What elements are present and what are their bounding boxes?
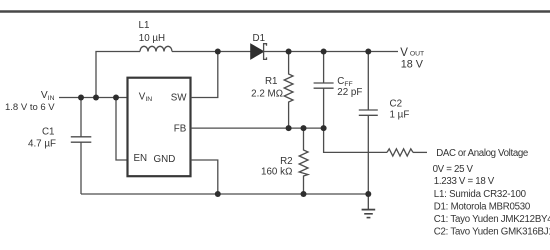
resistor R2 bbox=[299, 128, 308, 194]
wire SW to rail bbox=[191, 52, 218, 98]
svg-text:C1: C1 bbox=[42, 127, 55, 138]
svg-text:L1: Sumida CR32-100: L1: Sumida CR32-100 bbox=[434, 189, 527, 200]
wire bottom rail bbox=[81, 193, 368, 195]
capacitor CFF bbox=[314, 52, 334, 129]
svg-text:FB: FB bbox=[174, 124, 187, 135]
svg-text:10 µH: 10 µH bbox=[139, 33, 165, 44]
diode D1 bbox=[251, 44, 267, 60]
svg-text:DAC or Analog Voltage: DAC or Analog Voltage bbox=[436, 148, 528, 159]
wire top rail right bbox=[264, 51, 398, 53]
svg-text:R1: R1 bbox=[265, 76, 278, 87]
svg-text:D1: D1 bbox=[253, 33, 266, 44]
node rail riser bbox=[93, 95, 99, 101]
svg-text:4.7 µF: 4.7 µF bbox=[28, 139, 56, 150]
ground bbox=[362, 194, 376, 218]
capacitor C1 bbox=[71, 98, 92, 195]
node R1/FB bbox=[286, 125, 292, 131]
svg-text:1.233 V = 18 V: 1.233 V = 18 V bbox=[434, 176, 495, 187]
svg-text:0V = 25 V: 0V = 25 V bbox=[433, 164, 474, 175]
svg-text:VIN: VIN bbox=[139, 91, 152, 103]
node EN bbox=[113, 95, 119, 101]
wire VIN input bbox=[59, 97, 128, 99]
svg-text:L1: L1 bbox=[139, 20, 150, 31]
node SW/L1 bbox=[215, 49, 221, 55]
svg-text:D1: Motorola MBR0530: D1: Motorola MBR0530 bbox=[434, 201, 531, 212]
svg-text:1.8 V to 6 V: 1.8 V to 6 V bbox=[5, 102, 55, 113]
svg-text:GND: GND bbox=[154, 154, 176, 165]
svg-text:R2: R2 bbox=[280, 156, 293, 167]
inductor L1 bbox=[140, 46, 172, 51]
wire EN branch bbox=[116, 98, 128, 161]
top rule bbox=[0, 10, 550, 13]
capacitor C2 bbox=[359, 52, 378, 195]
svg-text:2.2 MΩ: 2.2 MΩ bbox=[251, 88, 283, 99]
svg-text:18 V: 18 V bbox=[401, 59, 424, 71]
svg-text:C2: Tavo Yuden GMK316BJ1: C2: Tavo Yuden GMK316BJ1 bbox=[434, 227, 550, 238]
svg-text:22 pF: 22 pF bbox=[337, 87, 362, 98]
resistor DAC input bbox=[387, 149, 413, 156]
IC U1 bbox=[128, 78, 191, 177]
svg-text:C1: Tayo Yuden JMK212BY47: C1: Tayo Yuden JMK212BY47 bbox=[434, 214, 550, 225]
wire to DAC label bbox=[413, 151, 427, 153]
node CFF top bbox=[321, 49, 327, 55]
svg-text:EN: EN bbox=[134, 153, 148, 164]
wire top rail left bbox=[96, 52, 140, 98]
wire FB bbox=[191, 127, 324, 129]
resistor R1 bbox=[284, 52, 293, 129]
node C1/VIN bbox=[78, 95, 84, 101]
node D1/R1 bbox=[286, 49, 292, 55]
node C2 rail bbox=[365, 191, 371, 197]
svg-text:SW: SW bbox=[171, 92, 188, 103]
svg-text:VOUT: VOUT bbox=[400, 47, 424, 59]
node GND rail bbox=[215, 191, 221, 197]
node R2/FB bbox=[301, 125, 307, 131]
svg-text:1 µF: 1 µF bbox=[390, 110, 410, 121]
node junctions bbox=[78, 49, 371, 198]
svg-text:C2: C2 bbox=[390, 99, 403, 110]
node R2 rail bbox=[301, 191, 307, 197]
svg-text:160 kΩ: 160 kΩ bbox=[261, 167, 293, 178]
wire GND branch bbox=[191, 160, 218, 194]
node C2 top bbox=[365, 49, 371, 55]
wire top rail middle bbox=[172, 51, 251, 53]
wire DAC branch bbox=[324, 128, 387, 152]
svg-text:VIN: VIN bbox=[41, 90, 55, 102]
node CFF/FB bbox=[321, 125, 327, 131]
